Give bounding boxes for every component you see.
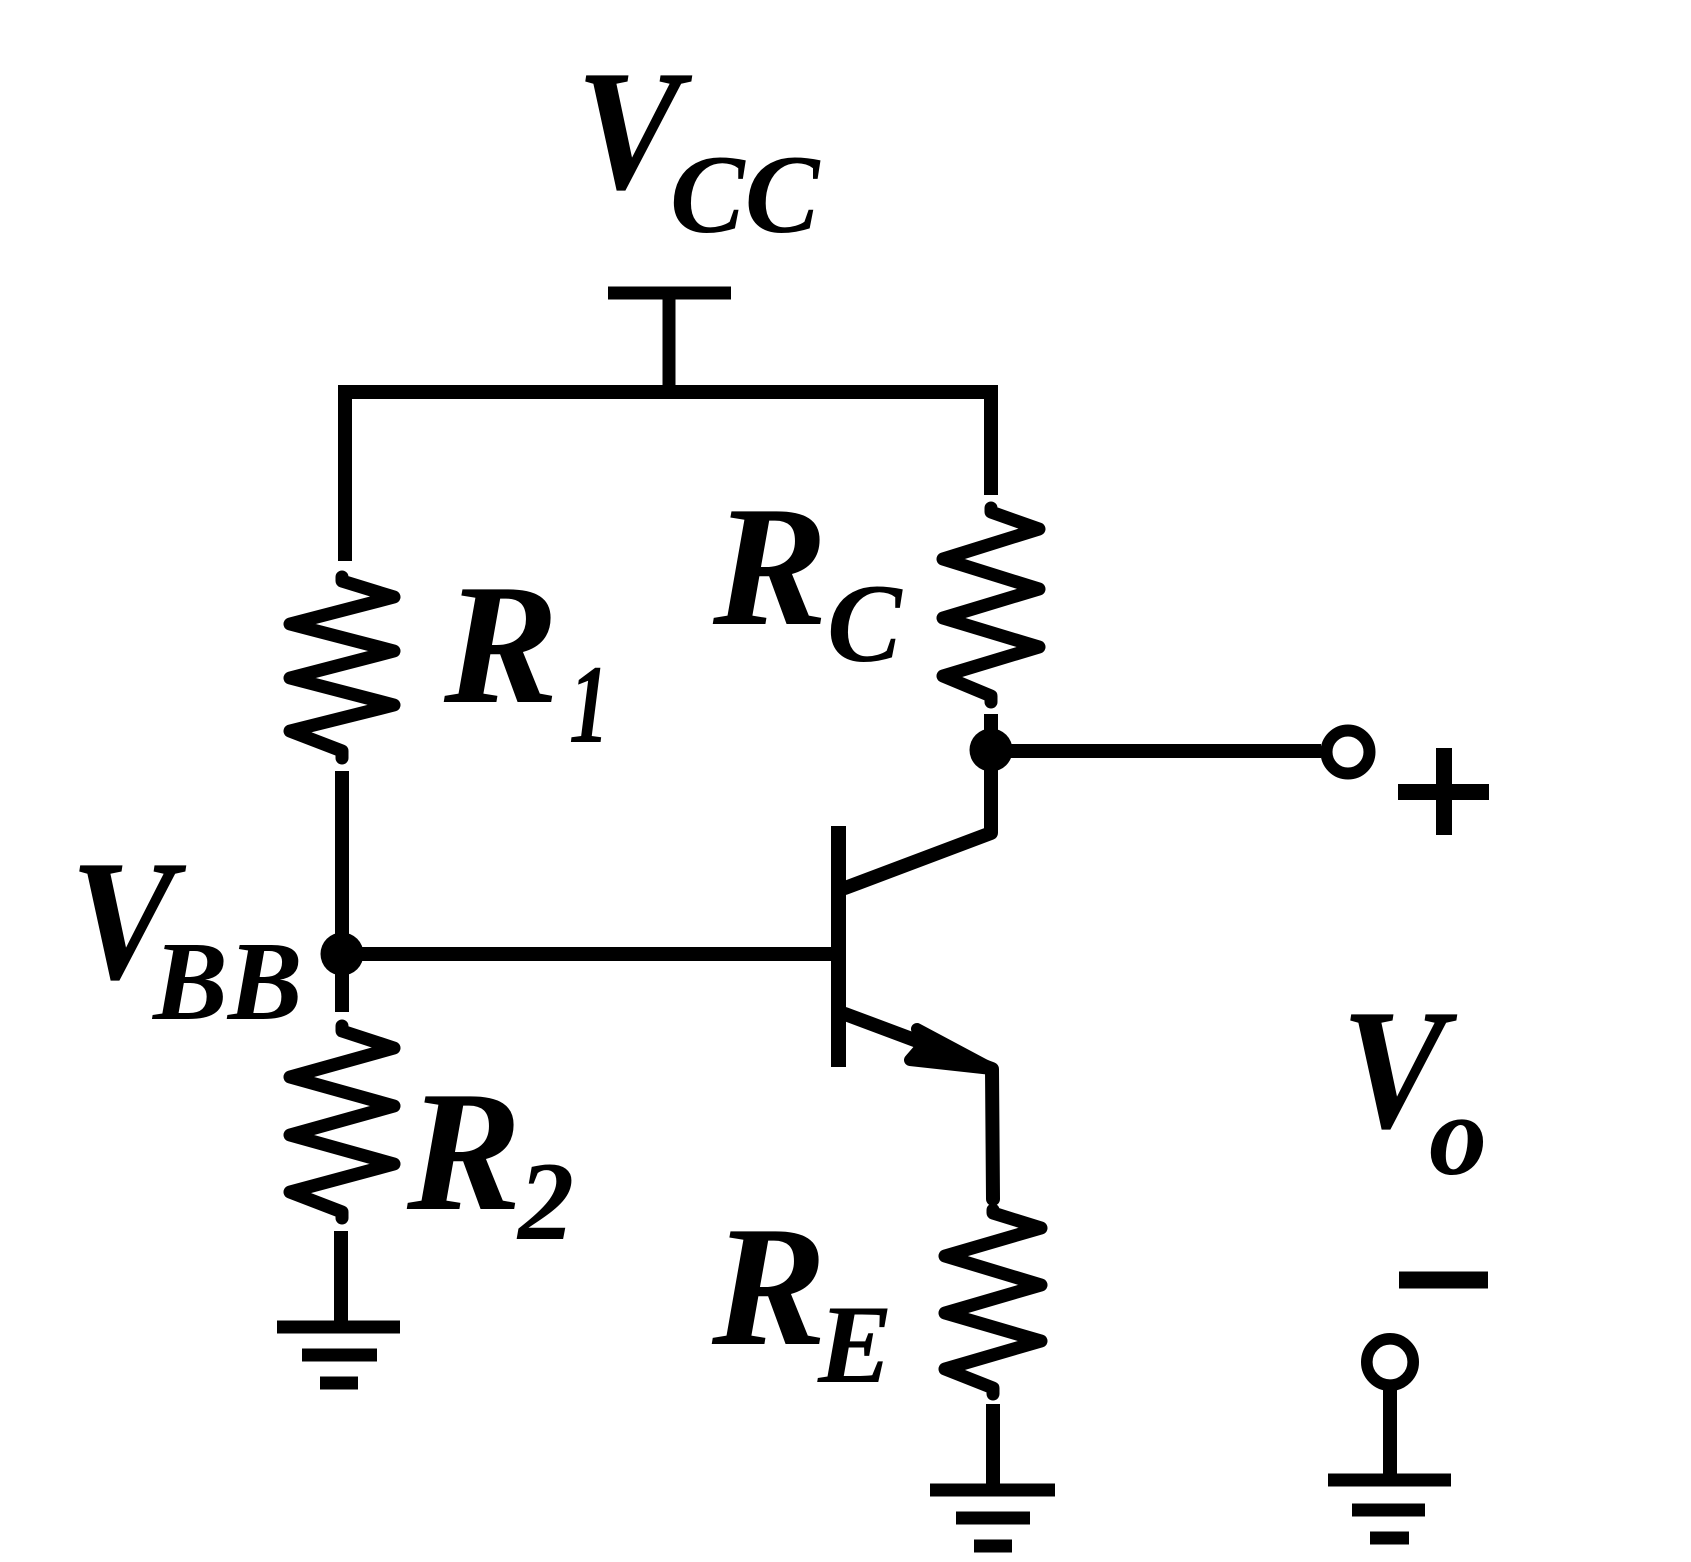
- wire VBB node to R2: [335, 954, 349, 1012]
- wire base: VBB node to transistor base: [342, 947, 831, 961]
- svg-text:1: 1: [569, 643, 609, 767]
- ground under R2: [277, 1327, 400, 1383]
- power supply VCC T-bar symbol: [608, 293, 731, 390]
- svg-text:o: o: [1429, 1072, 1487, 1200]
- svg-text:R: R: [406, 1057, 522, 1247]
- svg-text:C: C: [827, 562, 903, 686]
- transistor Q1 base bar: [831, 826, 846, 1067]
- wire terminal to ground: [1383, 1390, 1397, 1480]
- wire RC to collector node: [984, 714, 998, 749]
- svg-text:E: E: [817, 1283, 893, 1407]
- node collector junction dot: [970, 729, 1013, 772]
- svg-text:2: 2: [516, 1140, 574, 1264]
- resistor RC label: [712, 472, 903, 686]
- resistor R2: [290, 1026, 394, 1218]
- ground under RE: [930, 1490, 1055, 1546]
- ground right terminal: [1328, 1480, 1451, 1538]
- transistor Q1 emitter arrow: [910, 1029, 992, 1069]
- power supply VCC label: [576, 35, 821, 257]
- wire left drop from bus to R1: [338, 385, 352, 561]
- wire output: node to terminal: [991, 744, 1321, 758]
- resistor RC: [943, 508, 1039, 702]
- svg-text:BB: BB: [151, 920, 302, 1044]
- output Vo label: [1341, 974, 1487, 1200]
- wire right drop from bus to RC: [984, 385, 998, 495]
- minus sign: [1399, 1272, 1488, 1289]
- wire RE to ground: [986, 1404, 1000, 1490]
- transistor Q1 emitter lead: [845, 1014, 993, 1199]
- svg-text:R: R: [711, 1192, 827, 1382]
- resistor RE: [945, 1210, 1041, 1394]
- svg-text:R: R: [712, 472, 828, 662]
- resistor R2 label: [406, 1057, 574, 1264]
- wire R1 to VBB node: [335, 771, 349, 954]
- node VBB label: [70, 825, 302, 1044]
- resistor R1 label: [443, 550, 609, 767]
- resistor RE label: [711, 1192, 893, 1407]
- output terminal open circle: [1327, 731, 1370, 774]
- transistor Q1 collector lead: [845, 758, 991, 888]
- svg-text:CC: CC: [670, 133, 821, 257]
- node VBB junction dot: [321, 933, 364, 976]
- output return terminal open circle: [1367, 1339, 1413, 1385]
- svg-text:R: R: [443, 550, 559, 740]
- wire top bus: [345, 385, 991, 399]
- wire R2 to ground: [334, 1231, 348, 1327]
- resistor R1: [290, 577, 394, 758]
- plus sign: [1398, 748, 1489, 835]
